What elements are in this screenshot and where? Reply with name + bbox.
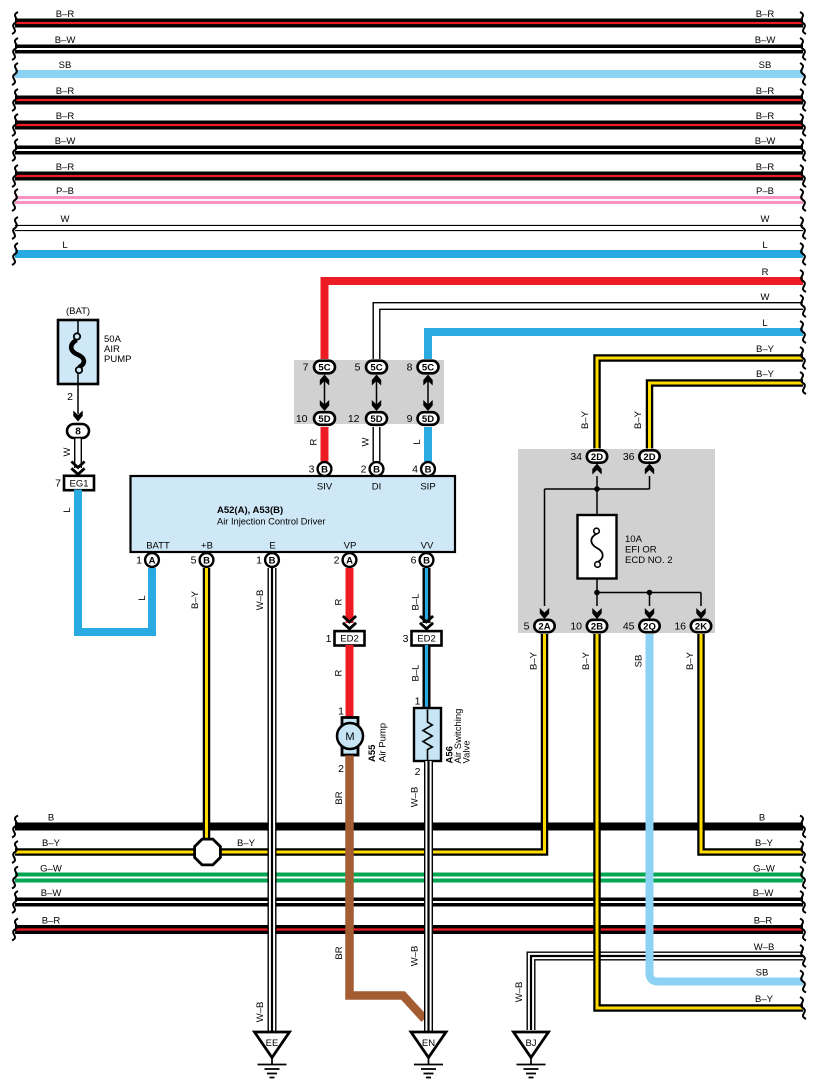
svg-text:8: 8 [407,362,413,374]
connector 8 [67,424,89,438]
svg-text:W–B: W–B [754,942,775,953]
wire B–W bus 6 [15,146,803,155]
svg-text:W–B: W–B [410,787,421,808]
svg-text:B: B [321,464,328,475]
svg-text:B–R: B–R [754,916,773,927]
continuation mark right G–W [800,867,806,889]
arrow down to 5D [372,400,381,411]
svg-text:2K: 2K [695,621,707,632]
svg-text:B–Y: B–Y [581,651,592,670]
wire B–W bus 2 [15,45,803,54]
svg-text:B–R: B–R [756,86,775,97]
wire R from ED2 to air pump motor [346,645,354,718]
svg-text:EG1: EG1 [69,478,88,489]
svg-text:7: 7 [303,362,309,374]
connector 2B pin 10 [587,620,607,633]
svg-text:A: A [149,555,156,566]
svg-text:B–Y: B–Y [237,838,256,849]
continuation mark left bus 5 [12,114,18,136]
wire W connector 5D pin 12 to DI [373,427,381,462]
motor terminal bracket bottom [342,748,358,756]
svg-text:W–B: W–B [410,946,421,967]
svg-text:B–R: B–R [756,111,775,122]
svg-text:A55: A55 [367,744,378,762]
wire L bus 10 [15,250,803,258]
wire P–B bus 8 [15,196,803,204]
connector ED2 pin 1 [326,631,365,645]
svg-text:SB: SB [59,60,72,71]
terminal SIV 3(B) [318,462,332,476]
svg-text:5: 5 [524,621,530,633]
svg-text:5: 5 [191,555,197,567]
svg-text:SIV: SIV [317,482,333,493]
wire L from right edge down to connector 5C pin 8 [428,332,803,359]
continuation mark right bus 4 [800,89,806,111]
wire SB from 2Q pin 45 to right edge [650,634,804,982]
wire B–R bus 7 [15,172,803,181]
continuation mark right bus 7 [800,165,806,187]
svg-text:B–Y: B–Y [42,838,61,849]
svg-text:W–B: W–B [255,1002,266,1023]
arrow down to 2K pin 16 [696,608,705,619]
svg-text:B–W: B–W [55,136,76,147]
svg-text:3: 3 [403,633,409,645]
continuation mark right W–B [800,945,806,967]
svg-text:EN: EN [422,1038,435,1049]
svg-text:5D: 5D [318,414,330,425]
wire G–W bus [15,873,803,883]
wire fuse to connector 8 [77,373,79,414]
svg-text:L: L [412,439,423,444]
svg-text:B: B [423,555,430,566]
svg-text:ED2: ED2 [340,634,358,645]
connector 2D pin 36 [639,450,659,463]
svg-text:BJ: BJ [525,1038,536,1049]
wire W–B from valve to EN ground [424,761,433,1032]
connector 5C pin 8 [418,361,439,374]
svg-text:B–W: B–W [55,35,76,46]
svg-text:B–R: B–R [56,9,75,20]
svg-text:B–Y: B–Y [755,838,774,849]
svg-text:EE: EE [266,1038,279,1049]
svg-text:+B: +B [201,541,213,552]
wire B bus [15,823,803,831]
svg-text:ECD NO. 2: ECD NO. 2 [625,555,673,566]
svg-text:DI: DI [372,482,382,493]
svg-text:7: 7 [55,478,61,490]
svg-text:R: R [334,598,345,605]
continuation mark right bus 3 [800,63,806,85]
svg-text:45: 45 [623,621,635,633]
continuation mark right B–Y 2 [800,372,806,394]
ground EE [255,1032,290,1078]
svg-text:5: 5 [355,362,361,374]
motor terminal bracket top [342,718,358,726]
svg-text:W: W [62,447,73,456]
continuation mark right L [800,321,806,343]
svg-text:L: L [137,595,148,600]
svg-text:10: 10 [296,413,308,425]
wire B–Y from +B to junction [203,568,211,840]
junction dot node [594,590,600,596]
wire B–R bus bottom [15,925,803,934]
connector 5C pin 5 [366,361,387,374]
svg-text:ED2: ED2 [417,634,435,645]
arrow down to 2A pin 5 [540,608,549,619]
wire B–R bus 5 [15,121,803,130]
svg-text:2D: 2D [591,452,603,463]
svg-text:B: B [425,464,432,475]
svg-text:G–W: G–W [40,864,62,875]
continuation mark right B–Y mid [800,841,806,863]
continuation mark right B–Y 1 [800,347,806,369]
wire B–Y from 2B pin 10 to right edge [597,634,803,1008]
svg-text:B–R: B–R [56,111,75,122]
wire B–L from VV terminal [423,568,431,623]
svg-text:10A: 10A [625,534,643,545]
ECU A52(A) A53(B) Air Injection Control Driver box [131,476,456,552]
svg-text:G–W: G–W [753,864,775,875]
wire B–L from ED2 to air switching valve [423,645,431,708]
svg-text:M: M [345,731,354,743]
arrow up to 5C [320,375,329,386]
continuation mark left bus 7 [12,165,18,187]
svg-text:5D: 5D [422,414,434,425]
svg-text:8: 8 [75,426,81,437]
svg-text:R: R [309,438,320,445]
svg-text:P–B: P–B [56,186,74,197]
wire B–Y from right edge down to connector 2D pin 34 [597,358,803,449]
terminal DI 2(B) [370,462,384,476]
terminal BATT 1(A) [145,553,159,567]
arrow down to 2B pin 10 [592,608,601,619]
connector 2A pin 5 [534,620,554,633]
EFI internal wiring [545,476,702,606]
junction dot node [594,486,600,492]
arrow down into connector 8 [73,411,82,422]
svg-text:(BAT): (BAT) [66,306,90,317]
terminal SIP 4(B) [421,462,435,476]
continuation mark left bus 3 [12,63,18,85]
svg-text:L: L [62,240,67,251]
svg-text:Valve: Valve [462,740,473,763]
svg-text:SB: SB [759,60,772,71]
wire BR brown from motor to EN ground [350,756,425,1020]
svg-text:2: 2 [361,464,367,476]
svg-text:SB: SB [634,655,645,668]
arrow up to 5C [372,375,381,386]
svg-text:A: A [346,555,353,566]
svg-text:B–Y: B–Y [190,590,201,609]
male connector chevrons into ED2 [343,616,356,629]
svg-text:B–R: B–R [42,916,61,927]
terminal +B 5(B) [200,553,214,567]
svg-text:B: B [269,555,276,566]
arrow down to 5D [320,400,329,411]
arrow down to 5D [423,400,432,411]
svg-text:B–R: B–R [756,162,775,173]
svg-text:A52(A), A53(B): A52(A), A53(B) [217,505,283,516]
svg-text:Air Pump: Air Pump [378,723,389,762]
continuation mark left bus 6 [12,139,18,161]
continuation mark right W [800,295,806,317]
continuation mark right bus 10 [800,243,806,265]
svg-text:B–W: B–W [755,35,776,46]
solenoid valve A66 Air Switching Valve [414,708,441,762]
svg-text:36: 36 [623,451,635,463]
connector 2K pin 16 [691,620,711,633]
svg-text:W–B: W–B [255,590,266,611]
connector 2D pin 34 [587,450,607,463]
continuation mark right B–R [800,919,806,941]
arrow up to 5C [423,375,432,386]
wire B–R bus 1 [15,19,803,28]
continuation mark left B–W [12,891,18,913]
svg-text:W: W [361,437,372,446]
connector EG1 pin 7 [55,476,94,490]
svg-text:9: 9 [407,413,413,425]
fuse 50A AIR PUMP [58,320,98,384]
ground BJ [514,1032,549,1078]
male connector chevrons into ED2 valve [420,616,433,629]
svg-text:R: R [334,669,345,676]
wire W–B bus to BJ ground [531,956,803,1030]
svg-text:4: 4 [412,464,418,476]
svg-text:B–R: B–R [56,86,75,97]
connector 5D pin 9 [418,412,439,425]
svg-text:B–Y: B–Y [529,651,540,670]
wire B–Y bus left segment and 2A pin 5 drop [15,634,545,852]
terminal VV 6(B) [420,553,434,567]
svg-text:B–Y: B–Y [756,344,775,355]
continuation mark left B [12,816,18,838]
arrow up into 2D pin 36 [645,464,654,475]
continuation mark left bus 10 [12,243,18,265]
male connector chevrons into EG1 [71,462,84,475]
svg-text:2D: 2D [643,452,655,463]
svg-text:16: 16 [674,621,686,633]
svg-text:SB: SB [756,968,769,979]
wire R from right edge down to connector 5C pin 7 [325,281,804,359]
svg-text:B–Y: B–Y [633,410,644,429]
continuation mark right R [800,270,806,292]
svg-text:L: L [762,240,767,251]
svg-text:SIP: SIP [420,482,435,493]
svg-text:BR: BR [334,946,345,959]
continuation mark left bus 2 [12,38,18,60]
svg-text:B–R: B–R [56,162,75,173]
svg-text:W: W [61,214,70,225]
connector ED2 pin 3 [403,631,442,645]
svg-text:B–Y: B–Y [756,369,775,380]
wire W–B from E terminal to EE ground [268,568,277,1032]
arrow up into 2D pin 34 [592,464,601,475]
connector mating arrows [376,378,378,408]
svg-text:R: R [762,267,769,278]
svg-text:34: 34 [570,451,582,463]
svg-text:B–Y: B–Y [685,651,696,670]
terminal VP 2(A) [343,553,357,567]
svg-text:B–W: B–W [41,888,62,899]
svg-text:B–Y: B–Y [580,410,591,429]
continuation mark right B–W [800,891,806,913]
svg-text:VP: VP [344,541,357,552]
junction block box (EFI) [518,449,715,633]
svg-text:W: W [761,292,770,303]
fuse 10A EFI OR ECD NO. 2 [578,515,617,579]
continuation mark right bus 8 [800,189,806,211]
continuation mark right bus 5 [800,114,806,136]
svg-text:B–W: B–W [755,136,776,147]
continuation mark right SB [800,971,806,993]
svg-text:VV: VV [421,541,434,552]
svg-text:6: 6 [411,555,417,567]
wire L from EG1 to BATT terminal [78,490,152,633]
svg-text:1: 1 [338,706,344,718]
svg-text:1: 1 [136,555,142,567]
junction dot node [647,590,653,596]
svg-text:2: 2 [334,555,340,567]
svg-text:E: E [269,541,275,552]
continuation mark right B–Y bottom [800,997,806,1019]
svg-text:5C: 5C [370,362,382,373]
svg-text:10: 10 [570,621,582,633]
continuation mark right bus 9 [800,217,806,239]
svg-text:L: L [762,318,767,329]
svg-text:1: 1 [256,555,262,567]
wire SB bus 3 [15,70,803,78]
connector 5D pin 10 [314,412,335,425]
svg-text:W: W [761,214,770,225]
svg-text:12: 12 [348,413,360,425]
continuation mark right B [800,816,806,838]
terminal E 1(B) [265,553,279,567]
svg-text:5C: 5C [318,362,330,373]
wire B–W bus [15,898,803,907]
continuation mark left bus 9 [12,217,18,239]
continuation mark left bus 8 [12,189,18,211]
svg-text:5C: 5C [422,362,434,373]
continuation mark left bus 4 [12,89,18,111]
continuation mark left B–Y [12,841,18,863]
continuation mark right bus 6 [800,139,806,161]
wire B–Y from 2K pin 16 to right edge [701,634,803,852]
svg-text:2A: 2A [538,621,550,632]
connector mating arrows [324,378,326,408]
svg-text:BR: BR [334,791,345,804]
svg-text:EFI OR: EFI OR [625,545,657,556]
svg-text:B–L: B–L [411,665,422,682]
connector mating arrows [427,378,429,408]
octagon junction node on B–Y bus [195,839,221,865]
wire W bus 9 [15,225,803,231]
continuation mark left G–W [12,867,18,889]
wire W from right edge down to connector 5C pin 5 [377,306,804,359]
svg-text:W–B: W–B [514,982,525,1003]
svg-text:B–W: B–W [753,888,774,899]
continuation mark right bus 1 [800,12,806,34]
continuation mark left B–R [12,919,18,941]
svg-text:B: B [203,555,210,566]
svg-text:BATT: BATT [146,541,170,552]
connector 2Q pin 45 [639,620,659,633]
junction connector box 5C/5D [294,360,444,424]
wire R from VP terminal [346,568,354,623]
svg-text:PUMP: PUMP [104,354,131,365]
svg-text:2B: 2B [591,621,603,632]
svg-text:Air Injection Control Driver: Air Injection Control Driver [217,517,326,527]
continuation mark right bus 2 [800,38,806,60]
wire B–R bus 4 [15,96,803,105]
ground EN [411,1032,446,1078]
connector 5C pin 7 [314,361,335,374]
wire R connector 5D pin 10 to SIV [321,427,329,462]
svg-text:1: 1 [415,696,421,708]
connector 5D pin 12 [366,412,387,425]
svg-text:1: 1 [326,633,332,645]
wire L connector 5D pin 9 to SIP [424,427,432,462]
svg-text:B–R: B–R [756,9,775,20]
arrow down to 2Q pin 45 [645,608,654,619]
svg-text:B: B [373,464,380,475]
svg-text:5D: 5D [370,414,382,425]
svg-text:B: B [759,813,765,824]
svg-text:2Q: 2Q [643,621,656,632]
svg-text:2: 2 [67,391,73,403]
svg-text:2: 2 [415,766,421,778]
svg-text:B–L: B–L [411,594,422,611]
wire B–Y from right edge down to connector 2D pin 36 [650,383,804,449]
svg-text:B–Y: B–Y [755,994,774,1005]
svg-text:2: 2 [338,763,344,775]
wire W connector 8 to EG1 [74,439,82,469]
motor A55 Air Pump [337,723,363,749]
svg-text:B: B [48,813,54,824]
continuation mark left bus 1 [12,12,18,34]
svg-text:L: L [62,507,73,512]
svg-text:P–B: P–B [756,186,774,197]
svg-text:3: 3 [309,464,315,476]
